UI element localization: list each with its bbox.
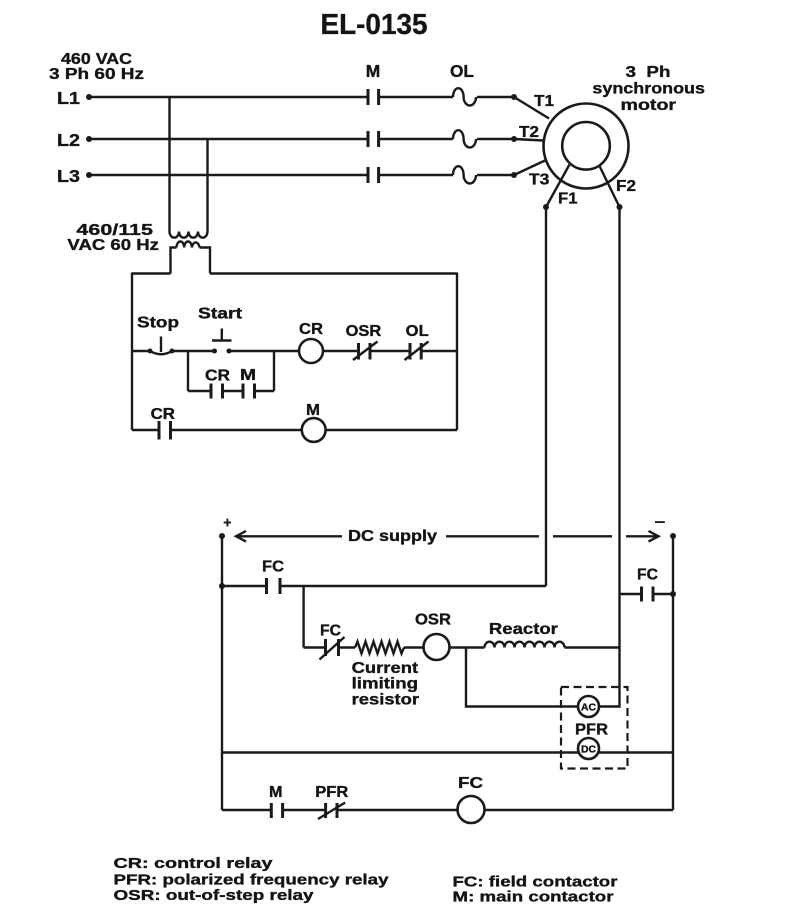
pushbutton Start NO: [212, 329, 232, 354]
wire PFR to FC coil: [337, 809, 458, 811]
svg-text:L3: L3: [57, 166, 80, 186]
svg-text:limiting: limiting: [352, 676, 419, 693]
svg-text:resistor: resistor: [352, 692, 420, 709]
wire seal-in middle: [223, 390, 244, 392]
wire CR to OSR: [323, 350, 359, 352]
wire F1 down: [545, 207, 547, 586]
wire stop to start: [172, 350, 215, 352]
wire secondary left lead: [171, 248, 177, 274]
contact FC NC field row: [320, 637, 345, 660]
svg-text:OL: OL: [406, 323, 429, 340]
wire seal-in bottom left: [188, 390, 211, 392]
svg-text:M: M: [366, 61, 381, 81]
label Current limiting resistor: [352, 660, 420, 709]
wire F2 down to PFR AC right: [599, 594, 620, 707]
svg-text:M: main contactor: M: main contactor: [453, 889, 614, 905]
overload heater OL pole L3: [453, 166, 476, 183]
wire drop to field row: [302, 586, 304, 648]
wire left rail DC: [221, 536, 223, 810]
wire T1 lead to motor: [514, 97, 549, 119]
svg-text:Start: Start: [198, 306, 243, 323]
wire T2 lead to motor: [514, 139, 544, 141]
svg-text:FC: field contactor: FC: field contactor: [453, 874, 618, 890]
svg-text:PFR: PFR: [575, 722, 608, 739]
svg-text:FC: FC: [637, 566, 658, 583]
contact OSR NC: [353, 342, 378, 361]
wire secondary right lead: [200, 248, 211, 274]
node T2: [511, 124, 539, 142]
relay coil PFR AC element: [578, 696, 599, 717]
resistor current limiting: [355, 642, 404, 654]
wire DC row right: [598, 751, 673, 753]
svg-text:Stop: Stop: [137, 314, 179, 331]
svg-text:F1: F1: [558, 190, 578, 207]
pushbutton Stop NC: [148, 337, 175, 355]
svg-text:M: M: [240, 367, 256, 384]
wire bottom rung left: [222, 809, 271, 811]
wire control box left rail: [131, 273, 133, 431]
wire start to CR coil: [229, 350, 299, 352]
wire control box right rail: [456, 273, 458, 431]
svg-text:FC: FC: [458, 775, 484, 792]
svg-text:CR: CR: [299, 321, 323, 338]
contact FC left: [267, 578, 281, 594]
wire F1 lead from rotor: [546, 165, 570, 208]
svg-text:F2: F2: [616, 178, 636, 195]
node L1: [57, 88, 92, 108]
wire FC NC to resistor: [339, 646, 356, 648]
contact CR seal-in: [211, 384, 223, 399]
svg-text:FC: FC: [320, 622, 341, 639]
wire resistor to OSR coil: [404, 646, 424, 648]
contact OL NC: [405, 342, 429, 361]
wire reactor to F2: [565, 646, 620, 648]
wire F2 lead from rotor: [599, 165, 620, 207]
svg-text:M: M: [269, 784, 283, 801]
svg-text:Current: Current: [352, 660, 419, 677]
node L3: [57, 166, 92, 186]
node DC minus: [655, 522, 676, 539]
legend left column: [114, 856, 389, 904]
contact M seal-in: [243, 384, 255, 399]
relay coil PFR DC element: [578, 738, 599, 759]
node T3: [511, 171, 550, 188]
svg-text:CR: control relay: CR: control relay: [114, 856, 273, 872]
wire L2: [89, 138, 367, 140]
wire F2 to FC right: [620, 593, 642, 595]
contact M pole L3: [368, 167, 379, 183]
wire FC right to rail: [653, 593, 673, 595]
transformer secondary winding: [177, 242, 200, 248]
junction left rail FC row: [219, 583, 225, 589]
contact CR rung2: [159, 421, 171, 440]
svg-text:T1: T1: [534, 93, 554, 110]
svg-text:Reactor: Reactor: [489, 621, 558, 638]
node F2: [616, 178, 636, 210]
svg-text:FC: FC: [262, 559, 284, 576]
svg-text:OSR: out-of-step relay: OSR: out-of-step relay: [114, 888, 314, 904]
wire F2 down: [618, 207, 620, 594]
wire OSR to reactor: [450, 646, 485, 648]
svg-text:PFR: PFR: [315, 784, 348, 801]
wire tap L2 to transformer primary: [206, 139, 208, 232]
wire DC row left: [222, 751, 579, 753]
wire drop to PFR AC left: [466, 648, 578, 707]
wire rung2 left: [132, 429, 159, 431]
overload heater OL pole L2: [453, 130, 476, 147]
svg-text:OSR: OSR: [415, 612, 451, 629]
relay PFR dashed box: [561, 687, 628, 769]
wire M coil to right rail: [326, 429, 457, 431]
svg-text:DC supply: DC supply: [348, 528, 437, 545]
wire L2 OL to T2: [477, 138, 514, 140]
node F1: [543, 190, 578, 210]
svg-text:3 Ph 60 Hz: 3 Ph 60 Hz: [49, 66, 144, 83]
wire seal-in right riser: [273, 351, 275, 391]
wire L3 OL to T3: [477, 174, 514, 176]
svg-text:M: M: [306, 402, 320, 419]
svg-text:AC: AC: [581, 702, 596, 714]
wire L3 M to OL: [379, 174, 453, 176]
svg-text:OL: OL: [450, 61, 474, 81]
wire L3: [89, 174, 367, 176]
label 460 VAC 3 Ph 60 Hz: [49, 51, 144, 83]
motor rotor field winding: [562, 122, 610, 170]
wire L1 M to OL: [379, 96, 453, 98]
contact M pole L2: [368, 131, 379, 147]
svg-text:L1: L1: [57, 88, 80, 108]
wire FC left to F1: [280, 585, 546, 587]
svg-text:synchronous: synchronous: [592, 80, 705, 97]
svg-text:motor: motor: [621, 97, 677, 114]
inductor Reactor: [485, 642, 565, 648]
wire L1: [89, 96, 367, 98]
contact M bottom rung: [271, 803, 282, 818]
wire right rail DC: [672, 536, 674, 810]
motor stator 3 Ph synchronous motor: [544, 104, 629, 189]
wire FC coil to right rail: [485, 809, 674, 811]
contactor coil M: [302, 418, 326, 442]
node DC plus: [219, 519, 231, 539]
svg-text:CR: CR: [151, 406, 176, 423]
wire L1 OL to T1: [477, 96, 514, 98]
wire CR to M coil: [171, 429, 302, 431]
label 460/115 VAC 60 Hz: [67, 222, 159, 254]
node L2: [57, 130, 92, 150]
contactor coil FC: [458, 796, 485, 823]
junction right rail FC row: [670, 591, 676, 597]
wire M to PFR contact: [283, 809, 326, 811]
relay coil OSR: [424, 634, 450, 660]
wire OSR to OL: [370, 350, 410, 352]
wire OL to right rail: [421, 350, 457, 352]
wire control box top left: [132, 272, 171, 274]
svg-text:T3: T3: [529, 171, 550, 188]
wire control box top right: [210, 272, 457, 274]
contact M pole L1: [368, 89, 379, 105]
overload heater OL pole L1: [453, 88, 476, 105]
contact FC right: [642, 587, 654, 602]
svg-text:OSR: OSR: [346, 323, 382, 340]
wire T3 lead to motor: [514, 160, 546, 175]
svg-text:3 Ph: 3 Ph: [626, 64, 671, 81]
svg-text:VAC 60 Hz: VAC 60 Hz: [67, 237, 159, 254]
label DC supply with arrows: [236, 528, 659, 545]
wire tap L1 to transformer primary: [168, 97, 170, 232]
wire rung1 left: [132, 350, 150, 352]
svg-text:CR: CR: [205, 368, 230, 385]
wire L2 M to OL: [379, 138, 453, 140]
legend right column: [453, 874, 618, 905]
wire seal-in bottom right: [255, 390, 275, 392]
wire to FC NC: [304, 646, 326, 648]
wire rail to FC left: [222, 585, 267, 587]
wire seal-in left riser: [187, 351, 189, 391]
svg-text:L2: L2: [57, 130, 80, 150]
contact PFR NC bottom: [318, 803, 345, 820]
node T1: [511, 93, 554, 110]
label 3 Ph synchronous motor: [592, 64, 705, 114]
svg-text:PFR: polarized frequency relay: PFR: polarized frequency relay: [114, 872, 389, 888]
svg-text:DC: DC: [581, 744, 596, 756]
transformer primary winding: [170, 232, 208, 238]
svg-text:EL-0135: EL-0135: [321, 9, 428, 41]
relay coil CR: [299, 339, 323, 363]
